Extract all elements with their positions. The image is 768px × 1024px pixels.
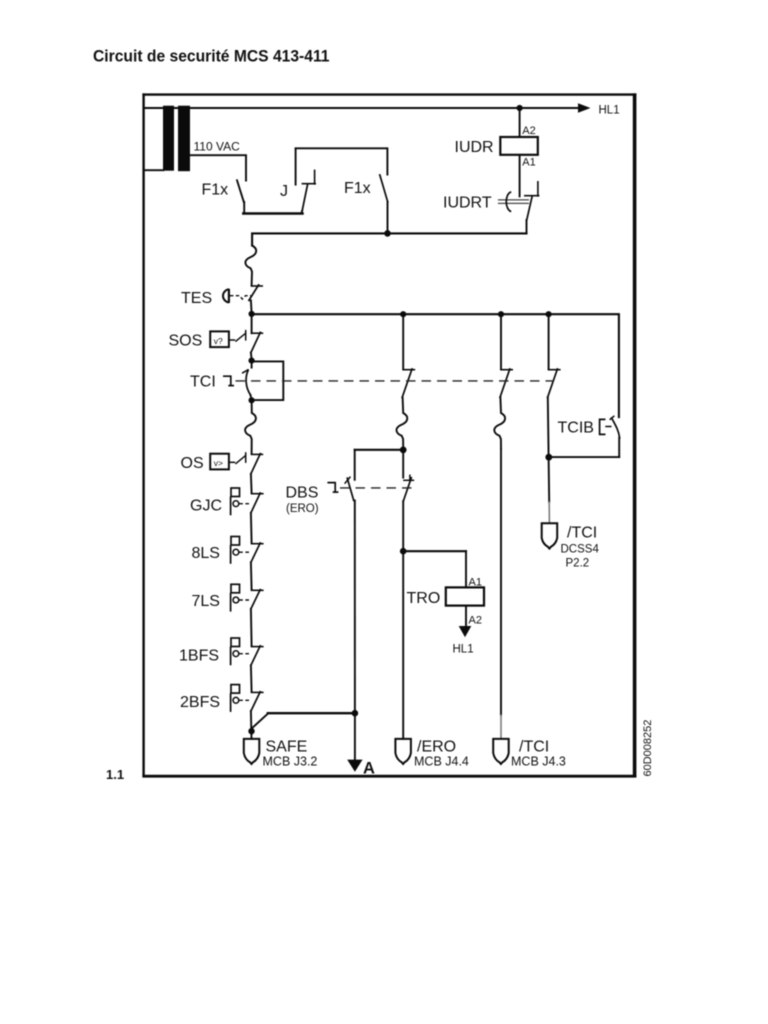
wire TRO link (403, 550, 466, 552)
wire top loop J to F1x (296, 148, 388, 174)
wire to bottom U (243, 202, 245, 213)
contact TES tick (252, 285, 263, 287)
wire branch 3 drop (548, 314, 550, 369)
svg-text:A2: A2 (522, 125, 535, 137)
svg-text:1.1: 1.1 (106, 767, 124, 782)
contact TCIB bracket (600, 419, 605, 434)
wire 1BFS down (250, 665, 253, 692)
wire TES down (250, 300, 253, 313)
contact TCI-3 blade (548, 369, 558, 397)
contact TCI-2 tick (501, 369, 512, 371)
wire branch 1 to /ERO (402, 551, 404, 739)
wire relay IUDR drop (519, 108, 521, 137)
wire branch 1 drop (402, 314, 404, 369)
contact 1BFS blade (251, 646, 260, 665)
connector /TCI DCSS4 shield (542, 523, 558, 548)
svg-text:F1x: F1x (202, 182, 229, 199)
svg-text:8LS: 8LS (192, 545, 220, 562)
contact TCI tick (243, 370, 248, 373)
limit switch 1BFS symbol (231, 638, 251, 665)
contact GJC tick (252, 493, 263, 495)
svg-text:1BFS: 1BFS (179, 648, 219, 665)
wire branch 2 to /TCI (500, 449, 502, 716)
wire TCIB down (618, 438, 620, 457)
wire DBS down to bus A (354, 500, 356, 713)
contact OS blade (251, 454, 260, 474)
svg-text:P2.2: P2.2 (566, 558, 590, 570)
contact J strokes (295, 149, 297, 185)
wire squiggle branch 1 (396, 397, 407, 448)
wire gray segment to /TCI (500, 715, 502, 739)
connector /TCI shield (493, 739, 509, 764)
svg-text:TCIB: TCIB (558, 420, 594, 437)
svg-text:MCB J4.4: MCB J4.4 (414, 755, 469, 769)
node bus A left (248, 728, 254, 734)
node F1x bottom (384, 230, 391, 237)
svg-text:SAFE: SAFE (266, 739, 308, 756)
wire DBS top link (355, 449, 404, 451)
wire branch 3 mid (547, 397, 550, 456)
contact TCIB link dash (606, 426, 611, 428)
contact DBS blade (347, 478, 353, 500)
wire bottom U (243, 212, 302, 215)
connector /ERO shield (395, 739, 411, 764)
wire 110VAC out (190, 155, 247, 180)
wire F1x down to node (387, 202, 389, 234)
contact OS tick (252, 453, 263, 455)
wire 2BFS down to SAFE node (250, 711, 253, 739)
wire TCI bypass rect (252, 361, 284, 400)
contact 8LS tick (252, 543, 263, 545)
node branch1 top (400, 311, 406, 317)
contact 8LS blade (251, 543, 260, 562)
contact TES blade (249, 285, 259, 301)
wire TRO A1 (465, 551, 467, 587)
svg-text:F1x: F1x (344, 180, 371, 197)
svg-text:HL1: HL1 (453, 644, 474, 656)
svg-text:J: J (280, 183, 288, 200)
wire gray segment to DCSS4 (548, 502, 550, 524)
node TRO tap (400, 548, 407, 555)
contact 1BFS tick (252, 646, 263, 648)
contact ERO-1 blade (403, 478, 411, 501)
wire TCI down (250, 395, 251, 400)
wire GJC down (250, 513, 253, 543)
node HL1/IUDR (517, 105, 523, 111)
wire SOS down (250, 353, 253, 360)
wire bottom bus to A (268, 712, 355, 714)
contact TCIB blade (curved) (612, 418, 620, 438)
contact TCI-1 tick (403, 369, 414, 371)
contact TCI-2 blade (500, 369, 510, 397)
transformer T1 secondary bottom wire (145, 169, 164, 171)
wire diagonal to bus A (252, 713, 269, 728)
contact IUDRT arc (506, 192, 511, 212)
svg-text:MCB J4.3: MCB J4.3 (511, 755, 566, 769)
svg-text:MCB J3.2: MCB J3.2 (263, 755, 318, 769)
wire IUDRT down (526, 220, 528, 233)
contact 2BFS tick (252, 691, 263, 693)
svg-text:DBS: DBS (286, 485, 319, 502)
frame border (142, 93, 636, 777)
node bus A right (352, 710, 359, 717)
svg-text:v?: v? (214, 336, 223, 346)
wire branch bus y314 (252, 314, 619, 417)
wire squiggle left rail (245, 246, 256, 286)
wire branch 3 to /TCI DCSS4 (548, 457, 551, 502)
node TES out (249, 311, 255, 317)
svg-text:(ERO): (ERO) (286, 503, 319, 515)
actuator bracket TCI (223, 376, 234, 385)
contact IUDRT blade (527, 196, 533, 220)
svg-text:A2: A2 (469, 615, 482, 627)
arrow HL1 (578, 103, 591, 112)
contact 2BFS blade (251, 692, 260, 711)
contact 7LS blade (251, 590, 260, 609)
svg-text:TES: TES (181, 290, 212, 307)
wire return bus y233 (252, 233, 526, 245)
svg-text:DCSS4: DCSS4 (561, 544, 600, 556)
wire rail to SOS (251, 314, 253, 333)
contact 7LS tick (252, 589, 263, 591)
contact TCIB tick (610, 416, 614, 419)
linkage dash TCI row (236, 380, 554, 382)
svg-text:/TCI: /TCI (567, 525, 597, 542)
sensor box OS (210, 452, 246, 469)
node branch3 top (546, 311, 552, 317)
svg-text:2BFS: 2BFS (180, 694, 220, 711)
node branch2 top (498, 311, 504, 317)
wire squiggle left rail 2 (245, 401, 256, 454)
contact DBS tick (345, 477, 350, 483)
node SOS out (249, 358, 255, 364)
switch F1x blade (left) (237, 180, 244, 202)
node TCI out (249, 397, 255, 403)
svg-text:TCI: TCI (190, 374, 216, 391)
relay coil IUDR box (500, 137, 538, 155)
pushbutton TES symbol (223, 289, 251, 303)
svg-text:IUDR: IUDR (455, 139, 494, 156)
svg-text:A1: A1 (469, 577, 482, 589)
wire 8LS down (250, 562, 253, 589)
transformer T1 (163, 106, 190, 172)
contact GJC blade (251, 493, 260, 513)
limit switch 2BFS symbol (231, 685, 251, 712)
wire TRO A2 (465, 606, 467, 626)
svg-text:IUDRT: IUDRT (443, 195, 492, 212)
wire HL1 top rail (145, 107, 579, 109)
svg-text:Circuit de securité MCS 413-41: Circuit de securité MCS 413-411 (93, 48, 330, 66)
svg-text:SOS: SOS (169, 333, 203, 350)
wire branch 1 mid (402, 450, 404, 478)
wire squiggle branch 2 (494, 397, 505, 448)
wire TCIB return (549, 456, 619, 458)
svg-text:HL1: HL1 (599, 105, 620, 117)
svg-text:A1: A1 (522, 157, 535, 169)
relay coil TRO box (446, 587, 484, 605)
svg-text:OS: OS (181, 455, 204, 472)
svg-text:TRO: TRO (407, 590, 441, 607)
svg-text:v>: v> (214, 458, 223, 468)
wire TCI stub (251, 361, 253, 367)
wire down to A arrow (354, 713, 356, 760)
contact ERO-1 corner (404, 479, 414, 481)
svg-text:7LS: 7LS (192, 593, 220, 610)
node TCIB return (545, 454, 552, 461)
linkage dash DBS row (340, 487, 417, 489)
wire branch 1 to TRO node (402, 501, 404, 551)
connector SAFE shield (244, 739, 259, 764)
svg-text:/TCI: /TCI (519, 739, 549, 756)
limit switch GJC symbol (231, 488, 251, 515)
sensor box SOS (210, 330, 246, 347)
svg-text:/ERO: /ERO (417, 739, 456, 756)
svg-text:A: A (363, 760, 375, 778)
wire OS down (250, 474, 253, 493)
contact TCI blade (curved) (246, 370, 250, 394)
wire DBS drop (354, 450, 356, 480)
contact TCI-1 blade (402, 369, 412, 397)
actuator bracket DBS (327, 483, 338, 493)
arrow A down (347, 760, 362, 772)
contact TCI-3 tick (549, 369, 560, 371)
svg-text:60D008252: 60D008252 (642, 720, 654, 777)
svg-text:GJC: GJC (190, 498, 222, 515)
limit switch 7LS symbol (231, 584, 251, 611)
wire branch 2 drop (500, 314, 502, 369)
wire A1 to IUDRT (519, 155, 521, 197)
contact SOS tick (252, 332, 263, 334)
contact IUDRT corner (525, 195, 539, 197)
svg-text:110 VAC: 110 VAC (194, 140, 241, 154)
contact SOS blade (251, 332, 260, 352)
arrow HL1-TRO down (459, 626, 472, 637)
limit switch 8LS symbol (231, 537, 251, 564)
switch F1x blade (right) (380, 175, 388, 202)
contact IUDRT delay symbol (498, 200, 529, 204)
node DBS top (400, 447, 407, 454)
wire 7LS down (250, 609, 253, 646)
